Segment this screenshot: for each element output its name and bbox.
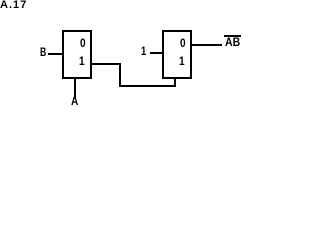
wire from input 1 to U2	[150, 52, 163, 54]
input label 1 (to U2)	[141, 47, 146, 59]
wire vertical up into U2 bottom	[174, 77, 176, 87]
gate U1 value label 1	[79, 56, 85, 68]
output label AB	[225, 38, 240, 50]
gate U2 value label 1	[179, 56, 185, 68]
gate U1	[62, 30, 92, 79]
figure label A.17	[0, 0, 27, 11]
wire vertical down from U1 output	[119, 63, 121, 87]
gate U1 value label 0	[80, 38, 86, 50]
wire from B to U1	[48, 53, 63, 55]
input label A	[71, 97, 78, 109]
input label B	[40, 48, 46, 60]
wire bottom horizontal run	[119, 85, 175, 87]
wire from A to U1 bottom	[74, 77, 76, 98]
overline bar of output label	[224, 35, 241, 37]
gate U2 value label 0	[180, 38, 186, 50]
wire U2 output	[192, 44, 222, 46]
wire U1 output horizontal	[92, 63, 122, 65]
gate U2	[162, 30, 192, 79]
